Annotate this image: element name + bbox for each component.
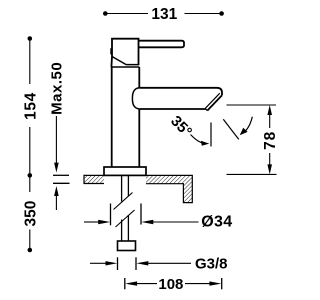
dimension 154/350 mid dot: [28, 173, 33, 178]
dimension 108 right tick: [221, 278, 223, 289]
dimension O34 left tick: [110, 204, 112, 226]
dimension 108 left line: [136, 283, 157, 285]
dimension 131 right dot: [219, 11, 224, 16]
dimension Max.50 top tick: [53, 174, 69, 176]
dimension Max.50 line: [55, 116, 57, 164]
dimension 350 line: [29, 175, 31, 250]
dimension G3/8 right arrowhead: [136, 261, 148, 265]
handle cap bevel: [112, 57, 139, 65]
supply pipe right edge: [127, 175, 129, 241]
dimension 78 lower line: [269, 153, 271, 165]
svg-text:131: 131: [151, 6, 177, 23]
countertop right hatched L-section: [146, 175, 192, 202]
spray direction curved arrow: [244, 117, 252, 132]
dimension 108 left tick: [124, 278, 126, 289]
angle 35 reference tick: [210, 123, 212, 147]
dimension G3/8 right tick: [135, 257, 137, 270]
pipe break diagonal 1: [114, 193, 133, 210]
dimension Max.50 up arrowhead: [54, 186, 59, 196]
dimension O34 right line: [153, 221, 199, 223]
svg-text:350: 350: [22, 201, 39, 227]
spout aerator outer face: [207, 95, 222, 110]
dimension 131 line right: [185, 13, 222, 15]
dimension 78 bottom tick: [227, 173, 277, 175]
dimension 154 top dot: [28, 36, 33, 41]
dimension G3/8 left arrowhead: [106, 261, 118, 265]
dimension O34 left line: [84, 221, 99, 223]
faucet handle cap: [111, 39, 138, 67]
dimension 131 line left: [105, 13, 148, 15]
body right edge lower: [138, 109, 140, 167]
svg-text:78: 78: [262, 131, 279, 150]
base plate: [104, 167, 146, 175]
dimension 108 right line: [185, 283, 211, 285]
dimension 78 upper line: [269, 114, 271, 128]
spout rear cap bulge: [132, 88, 139, 109]
dimension O34 right arrowhead: [141, 220, 153, 224]
dimension G3/8 right line: [148, 262, 192, 264]
countertop left hatched section: [84, 175, 104, 183]
angle 35 leader arrow: [191, 135, 205, 144]
dimension G3/8 left tick: [117, 257, 119, 270]
dimension 108 left arrowhead: [125, 281, 137, 285]
lever handle: [139, 41, 185, 48]
dimension 131 left dot: [103, 11, 108, 16]
dimension 154 line: [29, 39, 31, 176]
connector nut: [118, 241, 136, 251]
body right edge upper: [138, 67, 140, 88]
supply pipe left edge: [121, 175, 123, 241]
svg-text:G3/8: G3/8: [195, 256, 228, 273]
svg-text:154: 154: [22, 92, 39, 120]
body left edge: [111, 67, 113, 167]
pipe break diagonal 2: [116, 210, 135, 227]
spout top edge: [139, 88, 222, 96]
dimension 78 down arrowhead: [267, 164, 272, 174]
spout aerator tip cap: [205, 108, 207, 110]
svg-text:Ø34: Ø34: [201, 214, 232, 231]
spout bottom edge: [139, 108, 206, 110]
dimension 78 up arrowhead: [267, 105, 272, 115]
spout aerator inner face: [205, 93, 220, 108]
dimension 108 right arrowhead: [209, 281, 221, 285]
dimension Max.50 bottom tick: [53, 182, 70, 184]
dimension 350 bottom dot: [28, 248, 33, 253]
spray direction stroke: [223, 119, 239, 139]
dimension Max.50 lower line: [55, 195, 57, 210]
dimension 78 top tick: [227, 104, 277, 106]
handle nub (set screw): [110, 48, 112, 55]
svg-text:108: 108: [158, 276, 183, 293]
dimension G3/8 left line: [90, 262, 106, 264]
svg-text:Max.50: Max.50: [49, 62, 66, 115]
body top collar line: [111, 66, 139, 68]
dimension O34 right tick: [140, 204, 142, 225]
dimension Max.50 down arrowhead: [54, 163, 59, 173]
dimension O34 left arrowhead: [98, 220, 110, 224]
